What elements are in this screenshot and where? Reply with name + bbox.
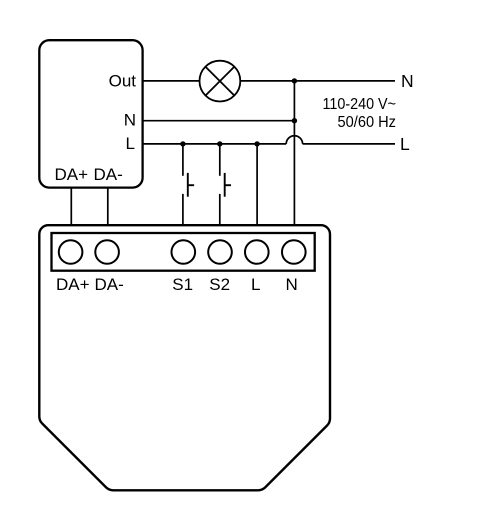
svg-text:50/60 Hz: 50/60 Hz bbox=[338, 114, 397, 131]
terminal S1 bbox=[172, 240, 196, 264]
terminal L bbox=[245, 240, 269, 264]
svg-text:DA-: DA- bbox=[94, 165, 123, 184]
svg-text:110-240 V~: 110-240 V~ bbox=[323, 96, 397, 113]
wire L branch to device terminal bbox=[256, 144, 258, 224]
vertical wire N to device terminal bbox=[293, 81, 295, 224]
lamp E1 bbox=[200, 61, 241, 102]
node L3 dot (L terminal branch) bbox=[254, 141, 259, 146]
svg-text:DA-: DA- bbox=[95, 275, 124, 294]
wire DA+ box to device bbox=[70, 189, 72, 225]
switch S1 bbox=[188, 173, 194, 197]
terminal N bbox=[282, 240, 306, 264]
switch S2 bbox=[225, 173, 231, 197]
control box U1 bbox=[39, 40, 142, 187]
svg-text:L: L bbox=[400, 134, 410, 154]
wire node N1 to supply N bbox=[294, 80, 395, 82]
terminal S2 bbox=[208, 240, 232, 264]
node N2 junction dot bbox=[292, 118, 297, 123]
wire Out pin to lamp bbox=[143, 80, 200, 82]
wire S2 upper segment bbox=[219, 144, 221, 176]
svg-text:S1: S1 bbox=[172, 275, 193, 294]
device body outline bbox=[39, 225, 330, 490]
node L2 dot (S2 branch) bbox=[217, 141, 222, 146]
wire lamp to node N1 bbox=[240, 80, 294, 82]
wire box N pin to node N2 bbox=[143, 120, 294, 122]
terminal DA+ bbox=[59, 240, 83, 264]
wire DA- box to device bbox=[107, 189, 109, 225]
wire S1 upper segment bbox=[182, 144, 184, 176]
svg-text:Out: Out bbox=[109, 72, 137, 91]
svg-text:DA+: DA+ bbox=[55, 165, 89, 184]
svg-text:DA+: DA+ bbox=[56, 275, 90, 294]
svg-text:N: N bbox=[401, 71, 414, 91]
terminal DA- bbox=[95, 240, 119, 264]
wire L from box to hop bbox=[143, 143, 286, 145]
svg-text:N: N bbox=[124, 110, 136, 129]
svg-text:N: N bbox=[285, 275, 297, 294]
wire hop over N wire bbox=[286, 136, 302, 144]
wire S1 lower segment bbox=[182, 194, 184, 224]
svg-text:L: L bbox=[251, 275, 260, 294]
svg-text:S2: S2 bbox=[209, 275, 230, 294]
wire L hop to supply L bbox=[303, 143, 395, 145]
svg-text:L: L bbox=[126, 134, 135, 153]
wire S2 lower segment bbox=[219, 194, 221, 224]
node N1 junction dot bbox=[292, 78, 297, 83]
node L1 dot (S1 branch) bbox=[180, 141, 185, 146]
terminal block bbox=[52, 233, 315, 271]
